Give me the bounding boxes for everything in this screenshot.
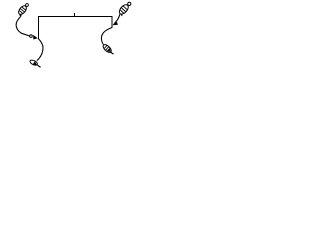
nub ring of top-right connector [128, 2, 131, 5]
wire left C-curve from upper connector [16, 17, 30, 36]
wire tail from top-right connector [117, 14, 121, 21]
connector top-right [117, 3, 130, 16]
tick mark mid trunk [73, 13, 75, 16]
tail of bottom-left connector [37, 65, 40, 67]
nub ring of top-left connector [26, 4, 29, 7]
arrowhead at right junction [113, 20, 119, 25]
tail of right-middle connector [110, 52, 113, 54]
wire main trunk horizontal [38, 16, 112, 18]
wire left lower drop curve [37, 39, 43, 61]
connector bottom-left [29, 59, 38, 66]
wire right hook curve to lower connector [101, 28, 111, 45]
wire left vertical drop [38, 17, 40, 39]
connector top-left [17, 4, 28, 16]
bead at left junction [30, 35, 33, 38]
arrowhead at left junction [33, 35, 38, 40]
wire right vertical drop [111, 17, 113, 29]
wire tail from top-left connector [19, 14, 22, 17]
connector right-middle [102, 43, 113, 54]
